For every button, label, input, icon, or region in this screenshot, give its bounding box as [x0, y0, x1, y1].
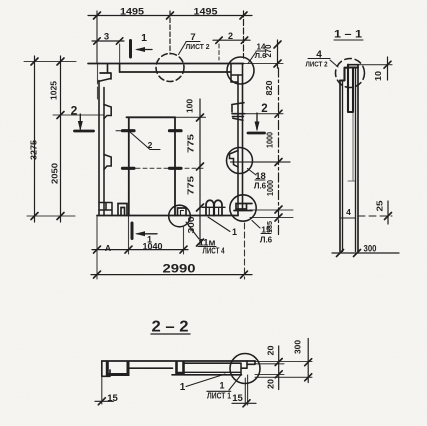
leader and label 1 (bottom, anchor) [208, 217, 230, 232]
callout circle side top (dashed) [336, 59, 365, 88]
panel left edge inner [103, 88, 105, 216]
right key 1 [232, 103, 245, 121]
callout circle top center (dashed) [156, 54, 184, 82]
panel bottom edge [97, 215, 238, 217]
anchor loop (horseshoe) [206, 200, 214, 215]
extension line x=170 dashed [169, 11, 171, 54]
extension y=107 [245, 113, 283, 115]
key pocket 2 (thick walls) [177, 363, 184, 374]
wall left end [102, 361, 110, 376]
left dimension line 3275 [34, 56, 36, 222]
top-left corner rebate [98, 64, 111, 82]
section mark 1 top: bar [129, 41, 132, 58]
bottom pocket at opening (detail 11м) [178, 208, 187, 216]
right dimension column line [278, 68, 280, 237]
extension x=244.5 bottom [244, 223, 246, 279]
extension line x=243.5 top [243, 11, 245, 58]
top dimension line 1495+1495 [88, 15, 252, 17]
callout label 15/Л.6 (bottom right) [252, 221, 260, 229]
callout circle top right [227, 57, 254, 84]
extension y=217.5 [250, 217, 293, 219]
tick at x=97 [94, 12, 101, 19]
extension y=209.5 [250, 209, 293, 211]
extension line x=97 below corner [97, 64, 99, 99]
tick y=107 [275, 110, 282, 117]
callout label 11м/ЛИСТ 4 [186, 222, 199, 239]
inner opening left edge [128, 117, 130, 215]
long recess outer [172, 363, 242, 375]
extension y=115 (section 2-2 trace level) [53, 114, 104, 116]
side wall top edge [348, 64, 359, 66]
web line between pockets [130, 367, 173, 369]
side bottom dimension 300 [332, 252, 399, 254]
section mark 2 right: thick bar [248, 132, 265, 135]
extension lines right of 2-2 [255, 361, 312, 363]
bottom-right corner verticals [237, 211, 239, 216]
panel right edge inner [237, 75, 239, 211]
left key 3 [99, 203, 112, 216]
dim 15 right [245, 375, 247, 405]
tick y=162 [275, 159, 282, 166]
tick at x=243.5 [240, 12, 247, 19]
section mark 1 bottom: arrow [137, 233, 157, 235]
inner opening top edge [127, 116, 176, 118]
cross tick right y=168.3 [170, 167, 182, 170]
inner-left bottom pocket [118, 204, 127, 216]
joint line y=218 [340, 217, 356, 219]
small dimension 2 (top right) [213, 39, 250, 41]
dim 15 left [101, 376, 103, 404]
extension x=97 bottom [96, 216, 98, 280]
small dimension 3 [92, 40, 124, 42]
right thin flange [247, 361, 255, 364]
bottom-right corner line [234, 210, 252, 212]
vertical connector x=119.6 [119, 64, 121, 72]
extension y=216 left [27, 215, 75, 217]
long recess inner bottom [185, 371, 240, 373]
dimension 25 [387, 201, 389, 224]
panel top inner line [120, 71, 231, 73]
bottom-right key pocket [236, 204, 252, 210]
section mark 2 left: thick bar [75, 130, 94, 133]
left dimension line 1025/2050 [60, 56, 62, 222]
tick y=217.5 [275, 214, 282, 221]
left key 2 [104, 155, 111, 170]
callout circle mid right [227, 148, 253, 174]
key pocket 1 (thick walls) [107, 363, 128, 375]
leader and label 1/ЛИСТ 1 [229, 376, 241, 391]
panel right edge outer [242, 64, 244, 211]
right end step [241, 361, 247, 375]
dashed line y=168.3 across opening [136, 167, 206, 169]
cross tick right y=130.7 [170, 129, 182, 132]
panel left edge outer [98, 81, 100, 216]
right key 2 [230, 151, 239, 168]
leader for label 2 inside opening [130, 132, 160, 150]
bottom dimension 2990 [91, 274, 252, 276]
anchor loop cross line [202, 206, 225, 208]
side wall top rebate steps [340, 68, 348, 81]
panel top edge [88, 63, 244, 65]
dashed extension y=216 [358, 215, 392, 217]
bottom dimension А / 1040 [92, 249, 188, 251]
left key 1 [104, 105, 111, 119]
dim col 300 [307, 339, 309, 383]
section mark 1 top: arrow [137, 49, 152, 51]
callout label 18/Л.6 [248, 169, 257, 176]
extension x=183.5 bottom [183, 227, 185, 254]
side wall right outer line [357, 65, 359, 252]
dimension 10 top right [359, 64, 393, 66]
dimension column x=200 (100/775/775/300) [199, 99, 201, 243]
section mark 2 left: arrow down [79, 114, 81, 129]
top-right corner rebate [231, 64, 243, 83]
side wall right inner line [355, 68, 357, 252]
cross tick left y=130.7 [123, 129, 135, 132]
tick y=209.5 [275, 206, 282, 213]
extension y=61.5 left [24, 61, 76, 63]
dim col 20/20 [278, 346, 280, 390]
callout circle bottom right [230, 195, 256, 221]
extension line x=97 top [96, 11, 98, 63]
extension x=128.5 bottom [128, 216, 130, 255]
cross tick left y=168.3 [123, 167, 135, 170]
wall top surface line [102, 360, 255, 362]
extension y=63.5 to right dim [244, 63, 284, 65]
paper grain [0, 0, 1, 1]
side wall slot [348, 65, 358, 112]
section mark 1 bottom: bar [131, 223, 134, 239]
section mark 2 right: arrow down [256, 113, 258, 130]
extension y=162 [231, 161, 291, 163]
side wall left inner line [342, 81, 344, 252]
side wall inner step line [348, 112, 356, 181]
inner opening right edge [174, 117, 176, 215]
side wall left outer line [339, 81, 341, 252]
callout circle 2-2 right [230, 354, 260, 384]
tick at x=170 [167, 12, 174, 19]
inner opening extension to dim col [175, 116, 206, 118]
dimension 270 (right, vertical) [277, 40, 279, 68]
callout circle small bottom [169, 205, 191, 227]
leader and label 1 (recess) [186, 374, 225, 387]
